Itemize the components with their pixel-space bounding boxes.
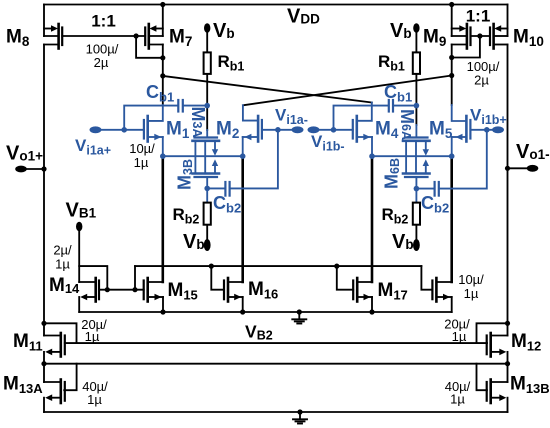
node M12 source / M13B drain junction bbox=[505, 361, 510, 366]
node M11 source / M13A drain junction bbox=[41, 361, 46, 366]
resistor Rb2 left bbox=[204, 203, 211, 225]
svg-text:Vb: Vb bbox=[392, 231, 414, 253]
transistor M1 bbox=[144, 105, 163, 156]
wire M16 gate riser bbox=[211, 266, 224, 290]
svg-text:M3B: M3B bbox=[175, 159, 196, 190]
wire VDD top rail bbox=[44, 4, 508, 6]
wire tail M4 source down to M17 drain bbox=[371, 156, 374, 282]
terminal Vi1b+ bbox=[492, 126, 504, 133]
transistor M6A bbox=[403, 125, 430, 174]
transistor M14 (NMOS, diode-connected) bbox=[79, 278, 99, 302]
wire M11 source / M13 gate line bbox=[44, 363, 508, 365]
transistor M9 (PMOS, diode-connected) bbox=[452, 24, 471, 49]
svg-text:2µ/: 2µ/ bbox=[53, 243, 72, 258]
transistor M18 (NMOS 10u/1u) bbox=[432, 278, 451, 302]
wire NMOS gate bus bbox=[135, 265, 421, 267]
wire M7 source vertical bbox=[162, 5, 164, 37]
resistor Rb2 right bbox=[413, 203, 420, 225]
wire Cb1 left to Rb1 node bbox=[184, 105, 208, 107]
node M2 gate / Cb2 riser bbox=[275, 127, 281, 133]
wire M9-M10 gate bus bbox=[471, 35, 491, 37]
wire M7 drain down to M1 drain bbox=[162, 45, 164, 106]
wire M6B gate to Cb2 right bbox=[416, 188, 433, 190]
node M7 gate-drain tie bbox=[160, 55, 165, 60]
wire tail M1 source down to M15 drain bbox=[162, 156, 165, 282]
svg-text:10µ/: 10µ/ bbox=[458, 272, 484, 287]
svg-text:2µ: 2µ bbox=[94, 55, 109, 70]
svg-text:1µ: 1µ bbox=[55, 257, 70, 272]
node M5 source tail bbox=[449, 153, 455, 159]
wire M7 gate-drain tie loop bbox=[136, 36, 163, 58]
wire bottom ground rail bbox=[44, 411, 508, 413]
wire M11-M12 gate line VB2 bbox=[65, 342, 487, 344]
node M5 gate / Cb2 riser bbox=[484, 127, 490, 133]
node M16 source at ground rail bbox=[240, 309, 245, 314]
wire M14 gate-drain tie loop bbox=[79, 266, 107, 290]
node M1 source tail bbox=[160, 153, 166, 159]
wire M5 gate to Vi1b+ bbox=[470, 129, 492, 131]
ground (mid rail) bbox=[292, 312, 306, 324]
svg-text:M12: M12 bbox=[511, 331, 541, 354]
wire left rail upper (VDD to M8 source) bbox=[43, 5, 45, 37]
wire left rail M13A source to bottom rail bbox=[43, 398, 45, 412]
node M1 gate junction bbox=[121, 127, 127, 133]
wire Vb right stem to Rb1 bbox=[415, 32, 417, 52]
wire Vo1- stub bbox=[508, 167, 532, 169]
wire M15 gate riser bbox=[134, 266, 136, 290]
wire left rail M11 source to M13A drain bbox=[43, 352, 45, 382]
terminal Vo1- bbox=[527, 165, 539, 172]
wire cross diagonal left mirror to M4 drain bbox=[163, 76, 372, 103]
ground (bottom rail) bbox=[293, 412, 307, 424]
svg-text:M7: M7 bbox=[169, 27, 192, 50]
terminal Vi1a+ bbox=[90, 126, 102, 133]
wire Rb1 left bottom lead bbox=[206, 74, 208, 106]
node M11 drain junction bbox=[41, 321, 46, 326]
wire right rail M10 drain down to M12 drain bbox=[507, 45, 509, 336]
transistor M15 (NMOS) bbox=[144, 278, 163, 302]
svg-text:Rb1: Rb1 bbox=[218, 52, 245, 74]
transistor M11 (NMOS, diode-connected) bbox=[44, 333, 65, 357]
node ground symbol tap mid rail bbox=[297, 309, 302, 314]
node right mirror output / diagonal start bbox=[449, 73, 454, 78]
wire M18 source corner bbox=[451, 297, 453, 312]
svg-text:Vi1b-: Vi1b- bbox=[311, 132, 345, 154]
wire mid ground rail bbox=[79, 311, 452, 313]
wire M12 gate-drain tie loop bbox=[477, 323, 508, 343]
transistor M17 (NMOS) bbox=[353, 278, 372, 302]
node M3B gate / Rb2 / Cb2 left bbox=[204, 186, 210, 192]
transistor M6B bbox=[403, 159, 430, 188]
svg-text:M11: M11 bbox=[13, 331, 43, 354]
svg-text:Vb: Vb bbox=[390, 20, 412, 42]
node Vo1+ junction bbox=[41, 166, 46, 171]
svg-text:M4: M4 bbox=[375, 119, 399, 142]
svg-text:M8: M8 bbox=[6, 27, 30, 50]
resistor Rb1 left bbox=[204, 52, 211, 74]
svg-text:M13B: M13B bbox=[510, 374, 550, 397]
svg-text:1µ: 1µ bbox=[85, 329, 100, 344]
svg-text:Vi1a+: Vi1a+ bbox=[75, 136, 111, 158]
node M9-M10 gate junction bbox=[477, 33, 482, 38]
transistor M13B (NMOS, diode-connected) bbox=[487, 380, 508, 404]
terminal Vo1+ bbox=[15, 166, 27, 173]
terminal Vi1b- bbox=[308, 126, 320, 133]
capacitor Cb1 right bbox=[389, 100, 393, 112]
wire Rb1 right bottom lead bbox=[415, 74, 417, 106]
svg-text:1µ: 1µ bbox=[464, 286, 479, 301]
node M7-M8 gate junction bbox=[134, 33, 139, 38]
svg-text:M15: M15 bbox=[168, 280, 198, 303]
node ground symbol tap bottom rail bbox=[297, 409, 302, 414]
node M9 source at VDD bbox=[449, 2, 454, 7]
svg-text:Cb1: Cb1 bbox=[384, 82, 412, 105]
wire M3A gate riser upper part bbox=[206, 106, 208, 130]
wire M8-M7 gate bus bbox=[62, 35, 145, 37]
wire M15 source corner bbox=[162, 297, 164, 312]
transistor M3B bbox=[193, 159, 220, 188]
svg-text:M1: M1 bbox=[166, 119, 190, 142]
svg-text:Rb1: Rb1 bbox=[378, 52, 405, 74]
wire cross diagonal right mirror to M2 drain bbox=[243, 76, 452, 106]
terminal Vb (top left) bbox=[204, 23, 210, 33]
svg-text:M6B: M6B bbox=[382, 158, 403, 189]
node M16 gate tap on bus bbox=[209, 264, 214, 269]
node M17 source at ground rail bbox=[369, 309, 374, 314]
transistor M5 bbox=[452, 105, 471, 156]
svg-text:M5: M5 bbox=[429, 119, 453, 142]
node M15 source at ground rail bbox=[160, 309, 165, 314]
wire Rb2 right top lead bbox=[415, 189, 417, 203]
svg-text:M16: M16 bbox=[248, 279, 278, 302]
transistor M8 (PMOS) bbox=[44, 24, 62, 49]
wire right rail M12 source to M13B drain bbox=[507, 352, 509, 382]
svg-text:Vb: Vb bbox=[183, 231, 205, 253]
svg-text:Vi1b+: Vi1b+ bbox=[470, 106, 507, 128]
svg-text:2µ: 2µ bbox=[474, 73, 489, 88]
terminal Vb (bottom right) bbox=[413, 239, 420, 251]
wire tail bus left bbox=[163, 155, 243, 157]
transistor M12 (NMOS, diode-connected) bbox=[487, 333, 508, 357]
svg-text:M17: M17 bbox=[378, 280, 408, 303]
transistor M13A (NMOS, diode-connected) bbox=[44, 380, 65, 404]
wire Rb2 left top lead bbox=[206, 188, 208, 202]
svg-text:M2: M2 bbox=[216, 119, 239, 142]
wire left rail M8 drain down to M11 drain bbox=[43, 45, 45, 336]
terminal Vb (top right) bbox=[413, 23, 419, 33]
terminal Vb (bottom left) bbox=[204, 239, 211, 251]
node M12 drain junction bbox=[505, 321, 510, 326]
transistor M4 bbox=[353, 103, 372, 157]
wire M14 source corner bbox=[78, 297, 80, 312]
wire Cb2 left to Vi1a- riser bbox=[230, 130, 278, 189]
wire M9 drain down to M5 drain bbox=[451, 45, 453, 106]
node M17 gate tap on bus bbox=[334, 264, 339, 269]
svg-text:VB2: VB2 bbox=[245, 322, 273, 343]
resistor Rb1 right bbox=[413, 52, 420, 74]
wire Vi1a+ terminal to M1 gate bbox=[99, 129, 144, 131]
node M7 source at VDD bbox=[160, 2, 165, 7]
transistor M16 (NMOS) bbox=[224, 278, 243, 302]
svg-text:Vb: Vb bbox=[213, 20, 235, 42]
wire M9 gate-drain tie loop bbox=[452, 36, 480, 58]
svg-text:M10: M10 bbox=[513, 27, 544, 50]
node M6B gate / Rb2 / Cb2 right bbox=[414, 186, 420, 192]
wire VB1 stem bbox=[78, 230, 80, 282]
node M15 gate bbox=[132, 287, 137, 292]
svg-text:1:1: 1:1 bbox=[91, 12, 116, 31]
wire M6A gate riser upper part bbox=[415, 106, 417, 125]
wire Vb left stem to Rb1 bbox=[206, 32, 208, 52]
wire tail bus right bbox=[372, 155, 452, 157]
svg-text:Rb2: Rb2 bbox=[173, 205, 200, 227]
node M9 gate-drain tie bbox=[449, 55, 454, 60]
terminal Vi1a- bbox=[292, 126, 304, 133]
wire Vo1+ stub bbox=[22, 168, 44, 170]
svg-text:Cb2: Cb2 bbox=[213, 193, 241, 216]
node left mirror output / diagonal start bbox=[160, 73, 165, 78]
wire right rail upper (VDD to M10 source) bbox=[507, 5, 509, 37]
svg-text:10µ/: 10µ/ bbox=[129, 141, 155, 156]
wire M2 gate to Vi1a- bbox=[262, 129, 293, 131]
wire M17 gate riser bbox=[337, 266, 353, 290]
wire M16 source corner bbox=[242, 297, 244, 312]
svg-text:M3A: M3A bbox=[188, 107, 208, 138]
node M2 source tail bbox=[240, 153, 246, 159]
svg-text:Cb1: Cb1 bbox=[146, 82, 174, 105]
wire M14 to M15 gate link bbox=[99, 289, 144, 291]
terminal VB1 bbox=[76, 222, 82, 232]
capacitor Cb2 right bbox=[435, 182, 439, 196]
wire M9 source vertical bbox=[451, 5, 453, 37]
wire right rail M13B source to bottom rail bbox=[507, 398, 509, 412]
wire Cb1 right to Rb1 node bbox=[394, 105, 417, 107]
wire Vi1b- terminal to M4 gate bbox=[319, 129, 353, 131]
wire Rb2 left bottom lead to Vb bbox=[206, 225, 208, 242]
svg-text:1µ: 1µ bbox=[450, 392, 465, 407]
svg-text:M9: M9 bbox=[423, 27, 446, 50]
wire M11 gate-drain tie loop bbox=[44, 323, 77, 343]
wire Rb2 right bottom lead to Vb bbox=[415, 225, 417, 242]
capacitor Cb2 left bbox=[225, 182, 229, 196]
wire M3B gate to Cb2 bbox=[207, 187, 224, 189]
node M14 gate bbox=[105, 287, 110, 292]
transistor M2 bbox=[243, 105, 262, 156]
node M4 gate junction bbox=[331, 127, 337, 133]
capacitor Cb1 left bbox=[178, 100, 183, 112]
svg-text:1µ: 1µ bbox=[452, 329, 467, 344]
transistor M10 (PMOS) bbox=[490, 24, 508, 49]
node M6A gate / Rb1 / Cb1 right bbox=[414, 103, 420, 109]
wire M13A gate riser bbox=[64, 364, 76, 391]
svg-text:M14: M14 bbox=[49, 275, 80, 296]
transistor M3A bbox=[193, 130, 220, 174]
node M4 source tail bbox=[369, 153, 375, 159]
svg-text:VDD: VDD bbox=[287, 6, 320, 28]
node Vo1- junction bbox=[505, 166, 510, 171]
wire tail M2 source down to M16 drain bbox=[241, 156, 244, 282]
transistor M7 (PMOS, diode-connected) bbox=[145, 24, 163, 49]
svg-text:Vo1+: Vo1+ bbox=[6, 143, 43, 165]
svg-text:1µ: 1µ bbox=[87, 392, 102, 407]
wire M1 gate riser to Cb1 bbox=[124, 106, 177, 130]
svg-text:M13A: M13A bbox=[3, 374, 43, 397]
wire M17 source corner bbox=[371, 297, 373, 312]
svg-text:Vi1a-: Vi1a- bbox=[275, 106, 308, 128]
svg-text:Vo1-: Vo1- bbox=[516, 141, 550, 163]
node M3A gate / Rb1 / Cb1 left bbox=[204, 103, 210, 109]
wire tail M5 source down to M18 drain bbox=[450, 156, 453, 282]
svg-text:M6A: M6A bbox=[397, 109, 417, 140]
svg-text:VB1: VB1 bbox=[66, 200, 97, 222]
wire Cb2 right to Vi1b+ riser bbox=[440, 130, 487, 189]
wire M18 gate riser bbox=[421, 266, 432, 290]
wire M13B gate riser bbox=[477, 364, 487, 391]
svg-text:1µ: 1µ bbox=[134, 155, 149, 170]
svg-text:1:1: 1:1 bbox=[466, 7, 491, 26]
svg-text:Rb2: Rb2 bbox=[382, 205, 409, 227]
wire M4 gate riser to Cb1 right bbox=[334, 106, 389, 130]
